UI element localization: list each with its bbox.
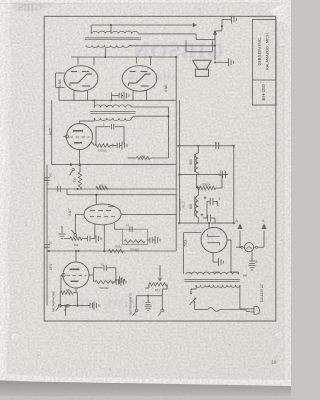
wire switch down: [194, 301, 196, 310]
ground 3300: [120, 145, 121, 147]
T3 primary right lead: [239, 285, 241, 309]
wire 5Z3 right: [227, 239, 231, 241]
wire left vertical: [46, 165, 48, 306]
T3 primary: [196, 285, 240, 287]
schematic border frame: [44, 16, 276, 321]
wire choke a bottom: [197, 173, 199, 175]
choke 600a: [195, 153, 198, 173]
capacitor 8d: [203, 217, 207, 219]
resistor 5M mic: [60, 291, 73, 295]
ground 6N7 grid: [95, 235, 97, 243]
tube V1 6F5: [63, 262, 89, 288]
pilot lamp: [244, 243, 253, 252]
dust specks: [22, 74, 23, 75]
wire B+ top: [91, 24, 192, 26]
wire above interstage: [59, 99, 176, 101]
jack inst 1: [135, 309, 138, 312]
T3 HV secondary: [186, 272, 239, 274]
wire U jog: [195, 34, 197, 40]
fuse: [208, 308, 220, 312]
wire 6N7 plate2: [114, 224, 116, 230]
ground cathode: [122, 95, 124, 97]
punch shadow right-top: [276, 40, 285, 49]
wire filt 1: [176, 145, 234, 147]
interstage T1 secondary: [94, 118, 131, 121]
wire grid V4 left: [56, 72, 65, 74]
wire pilot left: [236, 246, 241, 248]
tube V2 6N7: [84, 204, 121, 225]
bleed-through line2: [126, 72, 178, 82]
resistor 5M 6N7: [64, 238, 70, 240]
wire T3 to plug: [240, 308, 250, 310]
output transformer T2 core: [85, 37, 141, 39]
switch 6N7 grid: [74, 234, 77, 237]
capacitor cathode bypass: [112, 95, 119, 97]
capacitor inst top: [112, 281, 116, 283]
wire 6N7 grid left: [75, 214, 84, 216]
resistor 510: [78, 172, 81, 189]
capacitor .05 psu: [251, 252, 253, 261]
tube V1 guts: [70, 268, 80, 270]
bleed-through instructions: [122, 159, 174, 171]
bleed-through GIBSON: [132, 38, 224, 63]
ground 2000: [154, 236, 156, 244]
capacitor mic: [89, 303, 91, 309]
wire mic jacks: [58, 305, 90, 307]
wire T2 primary right: [138, 33, 196, 35]
tube V5 leads: [136, 57, 138, 64]
capacitor .05 left2: [44, 244, 50, 246]
bus vertical 2: [178, 100, 180, 223]
bleed-through kalamazoo: [68, 296, 149, 311]
wire pot right: [166, 284, 168, 289]
punch shadow right-bottom: [273, 332, 282, 341]
wire mid 2b: [67, 194, 176, 196]
capacitor inst mid: [147, 296, 149, 302]
wire right drop T1: [168, 107, 170, 158]
wire 6N7 plate right: [121, 213, 176, 215]
wire pilot right: [254, 246, 256, 248]
output transformer T2 secondary tap: [104, 48, 106, 57]
wire mic down: [65, 306, 67, 316]
speaker: [193, 59, 212, 61]
tube V2 guts: [90, 210, 95, 212]
ground speaker: [215, 61, 229, 63]
bus vertical 1: [175, 57, 177, 251]
wire mid 1: [52, 164, 177, 166]
wire 5Z3 top: [208, 223, 210, 228]
resistor 3300: [95, 144, 110, 148]
arrow up terminal: [213, 31, 216, 34]
tube V4 leads: [77, 57, 79, 65]
resistor 100K: [96, 186, 108, 190]
title block: [253, 20, 277, 106]
wire T2 secondary to speaker: [129, 44, 132, 47]
wire inst box: [136, 295, 162, 297]
wire cap8c: [206, 202, 208, 219]
interstage T1 secondary leads: [131, 116, 133, 118]
bypass loop 2500: [93, 268, 95, 275]
wire 6N7 cath: [94, 224, 96, 239]
tube V3 6C5: [67, 124, 93, 150]
resistor 750: [108, 249, 123, 252]
ground 6N7 left: [61, 226, 63, 233]
resistor 2500: [93, 275, 95, 282]
wire filt 2: [179, 174, 228, 176]
wire plate 6C5: [79, 121, 81, 124]
grid cap 6F5: [62, 273, 65, 276]
tube V4 6N6: [64, 66, 98, 92]
bypass loop 3300: [95, 127, 97, 146]
wire 6C5 to 3300: [92, 142, 95, 146]
output transformer T2 primary tap: [110, 25, 112, 34]
interstage T1 core: [90, 110, 135, 112]
interstage T1 primary leads: [93, 100, 95, 107]
capacitor .01 2000: [129, 226, 131, 232]
wire left drop: [51, 100, 53, 164]
wire mid 3: [47, 250, 176, 252]
tube V5 6N6: [122, 66, 157, 92]
wire grid bus: [71, 56, 176, 58]
ground 2500: [116, 279, 119, 281]
wire speaker drop: [214, 32, 216, 61]
ground top right: [222, 19, 232, 21]
ground 5Z3: [212, 253, 214, 263]
resistor 75: [128, 157, 137, 159]
wire cathode 6C5 down: [79, 150, 81, 165]
output transformer T2 primary: [92, 31, 138, 33]
output transformer T2 secondary: [86, 45, 129, 47]
wire 6F5 plate: [75, 251, 77, 262]
wire inst wiper: [159, 265, 161, 280]
capacitor 2000 out: [147, 239, 149, 241]
arrow A left: [239, 231, 241, 247]
punch hole left-top: [11, 41, 19, 49]
wire fuse to plug: [220, 309, 246, 311]
punch hole left-bottom: [10, 331, 19, 340]
wire 6F5 cath: [75, 288, 77, 292]
resistor 4000: [196, 186, 215, 190]
wire mid 2: [47, 188, 176, 190]
capacitor 8a: [215, 142, 217, 149]
wire 4000 leads: [195, 175, 197, 188]
jack inst 2: [161, 309, 164, 312]
grid cap 6C5: [65, 135, 68, 138]
wire filt choke top: [197, 146, 199, 153]
wire 510 top: [79, 165, 81, 172]
AC plug: [250, 308, 254, 310]
tube V6 5Z3: [201, 227, 227, 252]
output jack plate: [185, 40, 187, 51]
T3 core: [184, 279, 240, 281]
wire cathode junction: [111, 93, 113, 101]
tube V3 guts: [73, 130, 83, 132]
capacitor 3300 bypass: [113, 145, 117, 147]
wire to ground top: [215, 30, 222, 32]
wire 5Z3 left: [184, 232, 202, 234]
bypass loop 2000: [123, 229, 148, 244]
arrow A right: [263, 231, 265, 247]
wire 6N7 top: [95, 195, 97, 205]
switch tone: [70, 164, 72, 166]
bleed-through small: [187, 227, 223, 237]
capacitor .001: [44, 177, 50, 179]
resistor pot inst: [149, 283, 167, 286]
wire pot left: [148, 284, 150, 288]
tube V4 bottom leads: [73, 91, 75, 101]
switch power: [195, 285, 197, 289]
wire filt bottom: [179, 222, 233, 224]
capacitor 8c: [207, 201, 210, 203]
tube V5 bottom leads: [132, 91, 134, 100]
resistor 2000: [124, 240, 145, 243]
arrow connector speaker lead1: [193, 23, 196, 26]
capacitor .05 mid: [57, 186, 59, 192]
wire 5M mic leads: [59, 293, 61, 306]
capacitor 6N7 grid: [87, 236, 89, 242]
jack mic 1: [58, 304, 61, 307]
wire sf leads: [197, 188, 199, 196]
wire 6F5 to loop: [89, 274, 94, 276]
interstage T1 primary: [94, 105, 131, 108]
choke 600b speaker field: [195, 196, 198, 218]
svg-text:19: 19: [271, 360, 277, 366]
capacitor 8b: [222, 171, 224, 178]
jack mic 2: [67, 304, 70, 307]
output transformer T2 left lead: [90, 25, 92, 34]
